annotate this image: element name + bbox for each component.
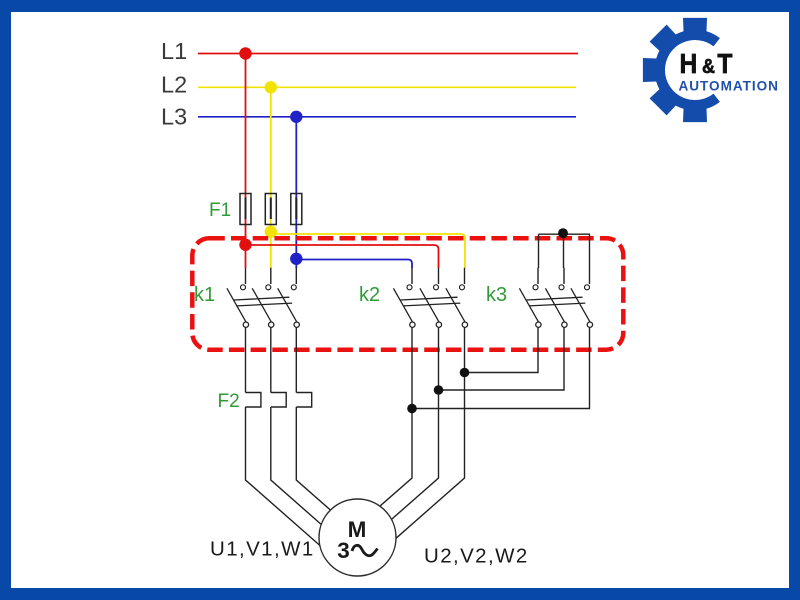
label U2,V2,W2 — [424, 545, 529, 568]
contactor k1 pole 3 — [278, 268, 300, 328]
contactor k2 linkage — [401, 297, 461, 306]
wire k3 star bus — [539, 234, 591, 268]
wire L2 drop — [270, 87, 272, 268]
node W2 junction — [460, 368, 470, 378]
fuse F1 pole 2 — [265, 194, 276, 225]
fuse F1 pole 1 — [240, 194, 251, 225]
wire F2 to motor W1 — [296, 407, 330, 510]
contactor k2 pole 2 — [420, 268, 442, 328]
node L1 tap — [239, 47, 251, 59]
svg-text:AUTOMATION: AUTOMATION — [679, 79, 779, 94]
contactor k3 pole 1 — [519, 268, 541, 328]
contactor k1 pole 1 — [227, 268, 249, 328]
contactor k3 pole 3 — [571, 268, 593, 328]
node fuse1 out — [239, 239, 251, 251]
node star point — [558, 228, 568, 238]
label L3 — [161, 104, 187, 130]
label k3 — [486, 284, 507, 306]
wire F2 to motor V1 — [271, 407, 322, 525]
node L3 tap — [290, 111, 302, 123]
fuse F1 pole 3 — [291, 194, 302, 225]
wire L1 drop — [245, 54, 247, 269]
wire rail L1 — [198, 53, 578, 55]
wire k3 pole1 to W2 node — [465, 328, 539, 373]
overload F2 element 2 — [271, 393, 286, 408]
contactor k2 pole 3 — [446, 268, 468, 328]
overload F2 element 1 — [246, 393, 261, 408]
wire rail L3 — [198, 116, 576, 118]
wire k2 pole3 to motor W2 — [396, 328, 465, 539]
node V2 junction — [434, 385, 444, 395]
wire L3 drop — [295, 117, 297, 268]
overload F2 element 3 — [296, 393, 311, 408]
label U1,V1,W1 — [210, 538, 315, 561]
label F1 — [209, 200, 231, 221]
wire F2 to motor U1 — [246, 407, 320, 545]
node L2 tap — [265, 81, 277, 93]
wire k2 pole2 to motor V2 — [392, 328, 439, 520]
wire k1 pole3 to F2 — [295, 328, 297, 393]
logo gear — [643, 18, 720, 122]
contactor k1 pole 2 — [252, 268, 274, 328]
contactor block outline — [192, 238, 623, 349]
contactor k3 linkage — [527, 297, 586, 306]
label k1 — [194, 284, 215, 306]
svg-text:H&T: H&T — [680, 48, 733, 80]
wire k1 pole1 to F2 — [245, 328, 247, 393]
logo text H&T — [680, 48, 733, 80]
wire k1 pole2 to F2 — [270, 328, 272, 393]
label L1 — [161, 38, 187, 64]
node fuse2 out — [265, 226, 277, 238]
logo text AUTOMATION — [679, 79, 779, 94]
contactor k1 linkage — [234, 297, 292, 306]
wire k2 pole1 to motor U2 — [380, 328, 412, 507]
wire blue jumper to k2 pole1 — [296, 260, 412, 269]
contactor k3 pole 2 — [545, 268, 567, 328]
wire k3 pole3 to U2 node — [412, 328, 590, 409]
label L2 — [161, 72, 187, 98]
wire rail L2 — [198, 86, 576, 88]
wire red jumper to k2 pole2 — [246, 245, 439, 268]
node fuse3 out — [290, 253, 302, 265]
contactor k2 pole 1 — [393, 268, 415, 328]
label k2 — [359, 284, 380, 306]
motor M 3-phase — [319, 499, 396, 576]
wire k3 pole2 to V2 node — [439, 328, 565, 390]
node U2 junction — [407, 404, 417, 414]
wire yellow jumper to k2 pole3 — [271, 234, 465, 268]
label F2 — [218, 391, 240, 412]
